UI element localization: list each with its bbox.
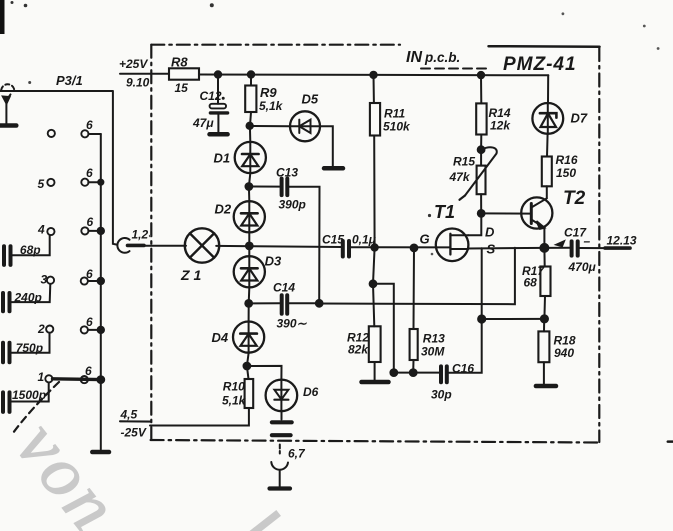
svg-text:P3/1: P3/1	[56, 73, 83, 88]
svg-text:+25V: +25V	[119, 57, 148, 71]
svg-text:510k: 510k	[383, 120, 411, 134]
svg-text:150: 150	[556, 166, 576, 180]
svg-text:R9: R9	[260, 85, 277, 100]
svg-text:240p: 240p	[14, 291, 42, 305]
svg-text:2: 2	[37, 322, 45, 336]
svg-text:12.13: 12.13	[607, 234, 637, 248]
svg-text:6: 6	[86, 315, 93, 329]
svg-text:6: 6	[87, 215, 94, 229]
svg-text:–: –	[584, 234, 591, 248]
svg-text:von: von	[1, 407, 135, 531]
svg-text:390∼: 390∼	[277, 317, 308, 331]
svg-text:470μ: 470μ	[568, 260, 597, 274]
svg-text:750p: 750p	[16, 341, 43, 355]
svg-text:47k: 47k	[449, 170, 471, 184]
svg-text:6: 6	[86, 267, 93, 281]
svg-text:1,2: 1,2	[132, 228, 149, 242]
svg-text:68p: 68p	[20, 243, 41, 257]
svg-text:5,1k: 5,1k	[222, 394, 247, 408]
svg-text:15: 15	[175, 81, 189, 95]
svg-text:Z 1: Z 1	[180, 267, 201, 283]
svg-text:940: 940	[554, 346, 574, 360]
svg-text:5,1k: 5,1k	[259, 99, 284, 113]
svg-text:5: 5	[38, 177, 45, 191]
svg-text:3: 3	[41, 273, 48, 287]
svg-text:C14: C14	[273, 281, 295, 295]
svg-text:D3: D3	[265, 254, 282, 269]
svg-text:T1: T1	[434, 202, 455, 222]
svg-text:1: 1	[38, 370, 45, 384]
svg-text:6: 6	[86, 166, 93, 180]
svg-text:68: 68	[524, 276, 538, 290]
svg-text:INp.c.b.: INp.c.b.	[406, 49, 460, 66]
svg-text:D: D	[485, 225, 495, 240]
svg-text:R8: R8	[171, 55, 188, 70]
svg-text:82k: 82k	[348, 343, 369, 357]
svg-text:R10: R10	[223, 380, 245, 394]
svg-text:6: 6	[86, 118, 93, 132]
svg-text:4,5: 4,5	[120, 408, 138, 422]
svg-text:C16: C16	[452, 362, 474, 376]
svg-text:6,7: 6,7	[288, 447, 306, 461]
svg-text:1500p: 1500p	[12, 388, 46, 402]
svg-text:D6: D6	[303, 385, 319, 399]
svg-text:S: S	[487, 242, 496, 257]
svg-text:T2: T2	[563, 188, 586, 209]
svg-text:C13: C13	[276, 166, 298, 180]
svg-text:D5: D5	[302, 92, 319, 107]
svg-text:C12: C12	[200, 89, 222, 103]
svg-text:30p: 30p	[431, 388, 452, 402]
svg-text:G: G	[420, 232, 430, 247]
svg-text:R13: R13	[423, 332, 445, 346]
svg-text:PMZ-41: PMZ-41	[503, 54, 577, 75]
svg-text:R15: R15	[453, 155, 475, 169]
svg-text:390p: 390p	[279, 198, 306, 212]
svg-text:D4: D4	[212, 330, 229, 345]
svg-text:6: 6	[85, 364, 92, 378]
svg-text:R11: R11	[384, 107, 405, 121]
svg-text:4: 4	[37, 223, 45, 237]
svg-text:D7: D7	[571, 111, 588, 126]
svg-text:R16: R16	[556, 153, 578, 167]
svg-text:47μ: 47μ	[192, 116, 214, 130]
svg-text:D2: D2	[215, 202, 232, 217]
svg-text:9.10: 9.10	[126, 76, 150, 90]
svg-text:0,1μ: 0,1μ	[352, 233, 377, 247]
svg-text:D1: D1	[214, 151, 231, 166]
svg-text:12k: 12k	[490, 119, 511, 133]
svg-text:C15: C15	[322, 233, 344, 247]
svg-text:-25V: -25V	[121, 426, 147, 440]
svg-text:30M: 30M	[421, 345, 445, 359]
